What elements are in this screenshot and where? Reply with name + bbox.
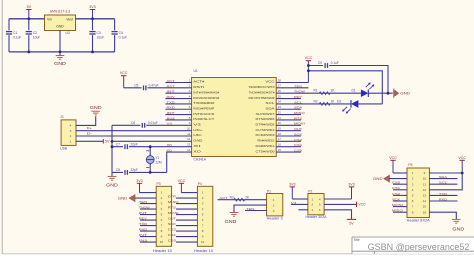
svg-text:MOSI: MOSI	[168, 211, 179, 215]
svg-text:XI: XI	[167, 143, 173, 147]
wire USB gnd riser	[76, 116, 96, 125]
svg-text:12: 12	[423, 188, 427, 192]
wire P5 pin16 to gnd	[429, 212, 456, 219]
svg-text:TXD: TXD	[439, 192, 448, 196]
svg-text:U1: U1	[194, 69, 198, 73]
svg-text:P2: P2	[308, 190, 312, 194]
svg-text:U3: U3	[66, 31, 70, 35]
svg-text:5V: 5V	[349, 222, 354, 226]
wire P5 pin12 to vcc	[429, 173, 462, 190]
svg-text:INT#/ACK#: INT#/ACK#	[193, 112, 214, 116]
svg-text:14: 14	[423, 199, 427, 203]
svg-text:RXD#/PEMP: RXD#/PEMP	[193, 106, 214, 110]
wire U1 gnd pin12 net	[112, 140, 192, 142]
svg-text:INT: INT	[167, 90, 175, 94]
svg-text:VCC: VCC	[389, 156, 397, 160]
wire vcc to D2 branch	[308, 71, 382, 104]
svg-text:RTS: RTS	[168, 206, 176, 210]
svg-text:C7: C7	[116, 142, 120, 146]
svg-text:TXD#/ERR#: TXD#/ERR#	[193, 101, 214, 105]
wire C8 row	[112, 171, 167, 173]
wire XO net	[167, 152, 192, 172]
wire SCL-R2 row	[276, 103, 350, 105]
svg-text:0.47uF: 0.47uF	[149, 83, 159, 87]
svg-text:RDY: RDY	[294, 95, 302, 99]
svg-text:0.1uF: 0.1uF	[331, 61, 339, 65]
svg-text:INT: INT	[139, 233, 147, 237]
svg-text:0.01uF: 0.01uF	[148, 121, 158, 125]
svg-text:CS2: CS2	[294, 138, 302, 142]
wire D2 to vcc	[358, 103, 382, 105]
svg-text:SDA: SDA	[294, 106, 303, 110]
capacitor C5	[134, 83, 158, 91]
resistor R2	[313, 99, 335, 105]
svg-text:SCL: SCL	[439, 181, 447, 185]
svg-text:VCC: VCC	[305, 56, 313, 60]
wires P5 pins 3-8 with net labels	[392, 181, 407, 213]
svg-text:R3: R3	[230, 196, 234, 200]
svg-text:VCC: VCC	[358, 203, 366, 207]
svg-text:INT#/SIN#/WAS#: INT#/SIN#/WAS#	[193, 90, 219, 94]
wire P2 pin3	[298, 209, 308, 211]
wire D+ net	[76, 130, 192, 132]
svg-text:XI: XI	[193, 144, 201, 148]
crystal Y1	[146, 147, 162, 173]
net label V3 at U1 pin9	[167, 122, 173, 126]
wire RST net	[124, 87, 192, 89]
svg-text:DCD#/WD3: DCD#/WD3	[256, 133, 275, 137]
svg-text:5V: 5V	[27, 5, 32, 9]
svg-text:P4: P4	[198, 182, 202, 186]
svg-text:XO: XO	[193, 149, 202, 153]
svg-text:RXD: RXD	[439, 197, 448, 201]
wire P1 pin3	[245, 210, 267, 212]
wire C4 branch	[114, 19, 116, 52]
svg-text:SDA: SDA	[265, 106, 274, 110]
wire U3 gnd pin	[59, 31, 61, 52]
net label TEN at P1	[246, 207, 254, 211]
svg-text:10: 10	[160, 240, 164, 244]
svg-text:5V: 5V	[105, 140, 110, 144]
svg-text:CS0: CS0	[168, 239, 176, 243]
svg-text:UD+: UD+	[193, 128, 202, 132]
svg-text:TEN#/BUSY/WT#: TEN#/BUSY/WT#	[249, 85, 275, 89]
svg-text:ROV#/AFD#/DS#: ROV#/AFD#/DS#	[193, 96, 219, 100]
op-amp U1 CH341A body	[187, 69, 281, 162]
power port 3V3 at P2 pin4	[348, 182, 354, 199]
wire TNOW-R1 row	[276, 92, 361, 94]
svg-text:D2: D2	[337, 99, 341, 103]
capacitor C8	[116, 168, 138, 176]
svg-text:VCC: VCC	[120, 71, 128, 75]
svg-text:3V3: 3V3	[136, 179, 142, 183]
svg-text:10uF: 10uF	[97, 36, 105, 40]
svg-text:CS0: CS0	[392, 181, 400, 185]
wire C9 branch	[308, 66, 388, 94]
svg-text:C4: C4	[119, 31, 123, 35]
svg-text:RTS#/WD6: RTS#/WD6	[256, 117, 275, 121]
power port 5V	[26, 5, 31, 19]
svg-text:GND: GND	[106, 183, 118, 188]
svg-text:22: 22	[278, 110, 282, 114]
svg-text:Title: Title	[354, 238, 360, 242]
svg-text:TEN: TEN	[139, 200, 147, 204]
svg-text:MISO: MISO	[294, 111, 306, 115]
svg-text:IN3: IN3	[139, 239, 148, 243]
svg-text:11: 11	[423, 182, 426, 186]
power port VCC at P2 pin5	[357, 202, 367, 207]
svg-text:GND: GND	[54, 61, 66, 66]
svg-text:DTR#/WD5: DTR#/WD5	[256, 123, 275, 127]
power port 5V at USB	[103, 139, 110, 144]
svg-text:21: 21	[278, 116, 282, 120]
svg-text:OUT: OUT	[294, 127, 302, 131]
svg-text:INT: INT	[139, 211, 147, 215]
power port 3V3	[89, 5, 95, 19]
svg-text:MISO: MISO	[392, 209, 404, 213]
svg-text:13: 13	[423, 194, 427, 198]
svg-text:SCK: SCK	[168, 222, 177, 226]
svg-text:Vin: Vin	[47, 18, 52, 22]
wire top rail right	[76, 18, 115, 20]
svg-text:USB: USB	[60, 147, 68, 151]
net label D+	[87, 126, 93, 130]
wire P2 pin6 to 5V	[324, 210, 351, 220]
svg-text:20: 20	[278, 121, 282, 125]
ground arrow at P3 pin2	[118, 194, 156, 202]
wire P2 pin5	[324, 203, 356, 205]
svg-text:P1: P1	[267, 189, 271, 193]
wire ACT-R3 row	[218, 199, 267, 201]
svg-text:3V3: 3V3	[348, 182, 354, 186]
capacitor C4	[111, 30, 127, 39]
wire C2 branch	[28, 19, 30, 52]
svg-text:Header 8X2A: Header 8X2A	[407, 219, 431, 223]
svg-text:3V3: 3V3	[289, 182, 295, 186]
svg-text:CTS#/WD0: CTS#/WD0	[256, 149, 275, 153]
junction dots vcc stem	[307, 64, 310, 72]
wire gnd vertical	[111, 125, 113, 172]
net label V3 at P2	[291, 201, 297, 205]
ground above USB	[90, 105, 102, 115]
svg-text:C5: C5	[134, 83, 138, 87]
svg-text:SCK: SCK	[294, 132, 303, 136]
svg-text:SLP#/WD7: SLP#/WD7	[256, 112, 275, 116]
svg-text:TNOW: TNOW	[139, 206, 150, 210]
capacitor C6	[131, 121, 158, 129]
wire P5 pin11 SCL	[429, 181, 457, 185]
svg-text:28: 28	[278, 78, 282, 82]
svg-text:P5: P5	[408, 163, 412, 167]
connector P2 header3x2	[306, 190, 328, 220]
svg-text:SCK: SCK	[392, 197, 401, 201]
svg-text:CS1: CS1	[294, 143, 302, 147]
svg-text:TEN: TEN	[246, 207, 254, 211]
svg-text:SDA: SDA	[439, 175, 448, 179]
svg-text:GND: GND	[452, 227, 464, 232]
svg-text:CH341A: CH341A	[194, 157, 207, 161]
svg-text:GND: GND	[56, 25, 64, 29]
wires P4 pins 2-10 with net labels	[168, 195, 198, 243]
svg-text:17: 17	[278, 137, 282, 141]
svg-text:R1: R1	[313, 89, 317, 93]
svg-text:VCC: VCC	[265, 80, 275, 84]
svg-text:V3: V3	[291, 201, 297, 205]
wire V3 net	[112, 124, 192, 126]
capacitor C2	[25, 30, 40, 39]
wire P5 pin13 TXD	[429, 192, 457, 196]
svg-text:R2: R2	[313, 99, 317, 103]
net label XI	[167, 143, 173, 147]
net label D-	[87, 131, 92, 135]
svg-text:10: 10	[423, 177, 427, 181]
power port VCC above U1	[305, 56, 313, 82]
svg-text:ACT#: ACT#	[193, 80, 205, 84]
svg-text:CS2: CS2	[392, 192, 400, 196]
svg-text:Y1: Y1	[155, 156, 159, 160]
svg-text:CS1: CS1	[392, 186, 400, 190]
svg-text:TEN: TEN	[294, 84, 302, 88]
svg-text:DTR: DTR	[168, 195, 177, 199]
net label ACT	[219, 196, 227, 200]
capacitor C7	[116, 142, 138, 150]
svg-text:12: 12	[187, 137, 191, 141]
svg-text:GND: GND	[193, 139, 203, 143]
power port 5V below P2	[347, 219, 356, 225]
wire P5 pin10 SDA	[429, 175, 457, 179]
power port VCC at P5 pin1	[389, 156, 397, 173]
svg-text:VCC: VCC	[458, 156, 466, 160]
svg-text:0.1uF: 0.1uF	[13, 36, 21, 40]
svg-text:GND: GND	[90, 105, 102, 110]
svg-text:27: 27	[278, 84, 282, 88]
wire D1 to gnd	[368, 92, 393, 94]
capacitor C3	[89, 30, 104, 39]
LED D2	[337, 99, 358, 113]
wire P2 pin4	[324, 198, 351, 200]
svg-text:D+: D+	[87, 126, 93, 130]
svg-text:22pF: 22pF	[131, 168, 138, 172]
wire P3 pin1	[140, 192, 157, 194]
title block	[352, 237, 474, 254]
svg-text:D1: D1	[351, 89, 355, 93]
ground below crystal	[106, 172, 118, 187]
svg-text:Header 10: Header 10	[194, 249, 213, 253]
wires P3 pins 3-10 with net labels	[139, 200, 156, 243]
svg-text:J1: J1	[60, 115, 64, 119]
connector P4 header10	[194, 182, 213, 253]
svg-text:C2: C2	[33, 31, 37, 35]
power port 3V3 at P2 pin1	[289, 182, 295, 199]
wire P5 pin14 RXD	[429, 197, 457, 201]
svg-text:C6: C6	[131, 121, 135, 125]
watermark	[368, 242, 470, 252]
power port 3V3 at P3	[136, 179, 142, 193]
power port VCC at P5 pin9	[458, 156, 466, 173]
svg-text:16: 16	[423, 210, 427, 214]
svg-text:MISO: MISO	[168, 200, 180, 204]
ground arrow right of D1	[394, 89, 411, 98]
svg-text:IN3: IN3	[167, 116, 176, 120]
svg-text:10: 10	[201, 240, 205, 244]
svg-text:VCC: VCC	[178, 179, 186, 183]
svg-text:RDY#/STB#/WR#: RDY#/STB#/WR#	[249, 96, 275, 100]
svg-text:3V3: 3V3	[89, 5, 95, 9]
wire U1 vcc pin28	[276, 82, 308, 84]
svg-text:RXD: RXD	[167, 106, 176, 110]
wires U1 left pin stubs with net labels	[165, 79, 191, 120]
svg-text:D-: D-	[87, 131, 92, 135]
wire D- net	[76, 135, 192, 137]
svg-text:26: 26	[278, 89, 282, 93]
svg-text:C1: C1	[13, 31, 17, 35]
junction dots regulator rails	[27, 17, 94, 53]
svg-text:RTS: RTS	[294, 116, 302, 120]
connector P5 header8x2	[407, 163, 431, 222]
svg-text:15: 15	[278, 148, 282, 152]
svg-text:15: 15	[423, 205, 427, 209]
ground below P5	[452, 219, 464, 231]
svg-text:0.1uF: 0.1uF	[119, 36, 127, 40]
svg-text:GND: GND	[225, 219, 237, 224]
svg-text:C3: C3	[97, 31, 101, 35]
svg-text:14: 14	[187, 148, 191, 152]
svg-text:CS0: CS0	[294, 148, 302, 152]
resistor R1	[313, 89, 335, 95]
svg-text:V3: V3	[193, 123, 201, 127]
svg-text:RI#/WD2: RI#/WD2	[257, 139, 275, 143]
wire P4 pin1	[181, 192, 197, 194]
svg-text:CS1: CS1	[168, 233, 176, 237]
svg-text:23: 23	[278, 105, 282, 109]
net label XO	[167, 148, 173, 152]
svg-text:ACT: ACT	[167, 79, 175, 83]
wire P2 pin2	[291, 203, 308, 205]
junction dot D1 gnd node	[387, 92, 390, 95]
svg-text:RDY: RDY	[139, 217, 147, 221]
wire P1 pin2 to gnd	[234, 205, 267, 212]
svg-text:OUT#/WD4: OUT#/WD4	[256, 128, 275, 132]
svg-text:DSR#/WD1: DSR#/WD1	[256, 144, 275, 148]
wire C3 branch	[92, 19, 94, 52]
svg-text:UD-: UD-	[193, 133, 202, 137]
capacitor C9	[318, 61, 339, 69]
svg-text:11: 11	[187, 132, 190, 136]
LED D1	[351, 82, 374, 97]
wire P5 pin1	[393, 172, 407, 174]
svg-text:P3: P3	[157, 182, 161, 186]
svg-text:GSBN @perseverance52: GSBN @perseverance52	[368, 242, 470, 252]
svg-text:22pF: 22pF	[131, 142, 138, 146]
svg-text:ACT: ACT	[219, 196, 227, 200]
svg-text:Vout: Vout	[66, 18, 73, 22]
wire USB vbus	[76, 140, 103, 142]
wire XI net	[112, 146, 192, 148]
svg-text:25: 25	[278, 94, 282, 98]
svg-text:TXD: TXD	[167, 100, 176, 104]
svg-text:10uF: 10uF	[33, 36, 41, 40]
wire P2 pin1	[292, 198, 308, 200]
svg-text:C8: C8	[116, 168, 120, 172]
svg-text:XO: XO	[167, 148, 173, 152]
svg-text:Header 3X2A: Header 3X2A	[306, 215, 328, 219]
wire top rail left	[9, 18, 45, 20]
svg-text:IN3#/SLCT: IN3#/SLCT	[193, 117, 214, 121]
svg-text:18: 18	[278, 132, 282, 136]
svg-text:GND: GND	[373, 177, 383, 181]
svg-text:OUT: OUT	[168, 217, 176, 221]
junction dot P5 vcc	[461, 172, 464, 175]
svg-text:24: 24	[278, 100, 282, 104]
svg-text:GND: GND	[400, 92, 410, 96]
wire C1 branch	[8, 19, 10, 52]
connector J1 USB	[60, 115, 76, 150]
ground arrow at P5 pin2	[373, 175, 407, 183]
svg-text:12M: 12M	[155, 160, 162, 164]
regulator U3 AMS1117-3.3	[45, 10, 76, 36]
wire bottom rail	[9, 51, 115, 53]
resistor R3	[230, 196, 250, 202]
svg-text:RXD: RXD	[139, 228, 148, 232]
svg-text:13: 13	[187, 143, 191, 147]
svg-text:ROV: ROV	[167, 95, 176, 99]
svg-text:MOSI: MOSI	[392, 203, 403, 207]
svg-text:19: 19	[278, 126, 282, 130]
connector P1 header3	[267, 189, 283, 220]
wire P5 pin9	[429, 172, 462, 174]
svg-text:RSTI: RSTI	[193, 85, 204, 89]
svg-text:TXD: TXD	[139, 222, 148, 226]
svg-text:TNOW#/END#/DT#: TNOW#/END#/DT#	[249, 90, 275, 94]
power port VCC at C5	[120, 71, 128, 88]
connector P3 header10	[153, 182, 172, 253]
svg-text:CS2: CS2	[168, 228, 176, 232]
svg-text:Header 10: Header 10	[153, 249, 172, 253]
svg-text:Header 3: Header 3	[267, 217, 283, 221]
svg-text:MOSI: MOSI	[294, 122, 305, 126]
svg-text:10: 10	[187, 126, 191, 130]
svg-text:INT: INT	[167, 111, 175, 115]
svg-text:16: 16	[278, 143, 282, 147]
ground below U3	[54, 52, 66, 66]
svg-text:AMS1117-3.3: AMS1117-3.3	[50, 10, 70, 14]
power port VCC at P4	[178, 179, 186, 193]
svg-text:SCL: SCL	[265, 101, 275, 105]
capacitor C1	[6, 30, 22, 39]
wires U1 right pin stubs with net labels	[276, 84, 308, 152]
ground below P1	[225, 213, 239, 224]
svg-text:GND: GND	[118, 196, 128, 200]
svg-text:C9: C9	[318, 61, 322, 65]
junction dots crystal	[111, 140, 152, 174]
